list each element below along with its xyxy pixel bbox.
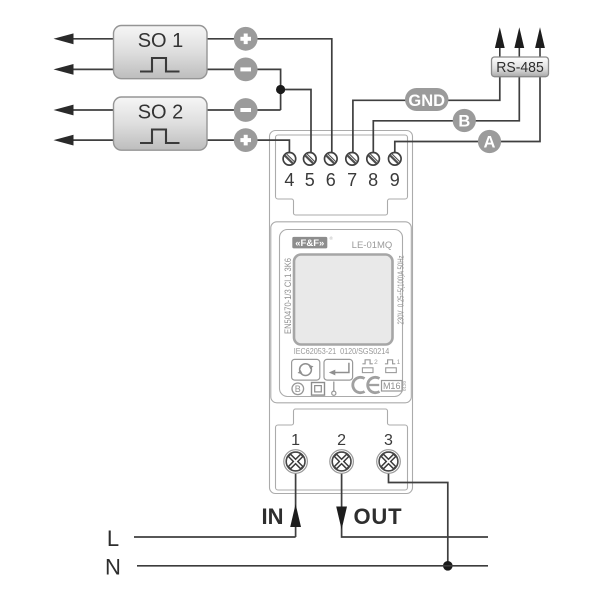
- SO2 box: [114, 97, 208, 150]
- svg-text:LE-01MQ: LE-01MQ: [352, 240, 393, 251]
- svg-text:M16: M16: [383, 381, 401, 391]
- svg-text:RS-485: RS-485: [496, 60, 544, 76]
- svg-text:5: 5: [305, 170, 315, 190]
- OUT arrow down: [336, 507, 347, 530]
- left rating vertical text: [282, 258, 293, 334]
- pulse LED 2 indicator: [362, 359, 378, 372]
- meter main body outline: [271, 222, 412, 403]
- svg-text:N: N: [105, 555, 121, 580]
- button enter: [324, 359, 353, 380]
- wire SO2+ to terminal 4: [207, 140, 290, 153]
- svg-text:230V 0.25÷5(100)A 50Hz: 230V 0.25÷5(100)A 50Hz: [395, 255, 405, 324]
- A label: [478, 130, 501, 153]
- GND label: [405, 88, 449, 111]
- svg-text:1: 1: [397, 359, 401, 366]
- RS-485 box: [492, 57, 549, 77]
- N line: [137, 565, 488, 567]
- wire terminal 7 to RS-485 GND: [353, 77, 500, 153]
- svg-text:6: 6: [326, 170, 336, 190]
- SO1 box: [114, 26, 208, 79]
- SO1 minus label: [234, 58, 258, 82]
- terminal 1 screw: [284, 450, 308, 474]
- terminal 4 screw: [283, 153, 296, 166]
- svg-text:IN: IN: [262, 504, 284, 529]
- terminal numbers 1-3: [291, 432, 393, 449]
- svg-text:OUT: OUT: [354, 504, 403, 529]
- svg-text:0120: 0120: [402, 380, 407, 391]
- svg-text:«F&F»: «F&F»: [295, 238, 324, 249]
- svg-text:9: 9: [390, 170, 400, 190]
- B label: [453, 109, 476, 132]
- svg-text:2: 2: [374, 359, 378, 366]
- SO1 output arrow bottom: [54, 64, 114, 75]
- button cycle: [292, 359, 320, 380]
- svg-text:EN50470-1/3 Cl.1 3K6: EN50470-1/3 Cl.1 3K6: [282, 258, 293, 334]
- wire terminal 8 to RS-485 B: [373, 77, 519, 153]
- svg-text:4: 4: [284, 170, 294, 190]
- node on N line junction dot: [443, 561, 453, 571]
- wire node J1 to terminal 5: [281, 90, 311, 153]
- meter top terminal block inner outline: [276, 135, 408, 215]
- terminal numbers 4-9: [284, 170, 399, 190]
- SO2 plus label: [234, 128, 258, 152]
- meter face plate outline: [280, 230, 403, 397]
- svg-text:7: 7: [347, 170, 357, 190]
- IN arrow up: [290, 504, 301, 527]
- wire terminal 1 to L: [295, 474, 297, 538]
- svg-text:2: 2: [337, 432, 346, 449]
- M16 approval box: [382, 380, 408, 391]
- svg-text:B: B: [458, 113, 470, 131]
- SO1 output arrow top: [54, 33, 114, 44]
- SO2 output arrow bottom: [54, 135, 114, 146]
- svg-text:L: L: [107, 526, 119, 551]
- svg-text:1: 1: [291, 432, 300, 449]
- probe symbol: [332, 382, 336, 396]
- wire SO1- to node J1: [207, 69, 281, 110]
- SO2 minus label: [234, 98, 258, 122]
- terminal 9 screw: [389, 153, 402, 166]
- LCD display: [294, 255, 393, 345]
- CE mark: [353, 377, 380, 392]
- meter bottom terminal block inner outline: [276, 409, 408, 490]
- SO2 output arrow top: [54, 105, 114, 116]
- L line: [134, 536, 296, 538]
- terminal 2 screw: [330, 450, 354, 474]
- terminal 6 screw: [325, 153, 338, 166]
- wire terminal 2 to OUT line: [342, 474, 488, 538]
- wire terminal 3 to N: [389, 474, 448, 566]
- node J1 junction dot: [276, 85, 285, 94]
- terminal 5 screw: [304, 153, 317, 166]
- pulse LED 1 indicator: [385, 359, 401, 372]
- RS-485 arrow 1: [495, 27, 505, 57]
- RS-485 arrow 2: [514, 27, 524, 57]
- svg-text:SO 2: SO 2: [138, 102, 184, 124]
- terminal 3 screw: [377, 450, 401, 474]
- SO1 plus label: [234, 27, 258, 51]
- wire terminal 9 to RS-485 A: [395, 77, 540, 153]
- svg-text:8: 8: [368, 170, 378, 190]
- double insulation symbol: [312, 383, 325, 396]
- svg-text:IEC62053-21 0120/SGS0214: IEC62053-21 0120/SGS0214: [294, 347, 390, 356]
- right rating vertical text: [395, 255, 405, 324]
- svg-text:A: A: [484, 134, 496, 152]
- svg-text:3: 3: [384, 432, 393, 449]
- wire SO2- to node J1: [207, 109, 281, 111]
- wire SO1+ to terminal 6: [207, 39, 332, 153]
- svg-text:GND: GND: [408, 92, 445, 110]
- F&F logo: [292, 235, 333, 249]
- terminal 7 screw: [346, 153, 359, 166]
- meter outer silhouette: [270, 131, 413, 494]
- svg-text:SO 1: SO 1: [138, 30, 184, 52]
- RS-485 arrow 3: [535, 27, 545, 57]
- svg-text:B: B: [295, 384, 301, 394]
- terminal 8 screw: [367, 153, 380, 166]
- class B symbol: [292, 383, 304, 395]
